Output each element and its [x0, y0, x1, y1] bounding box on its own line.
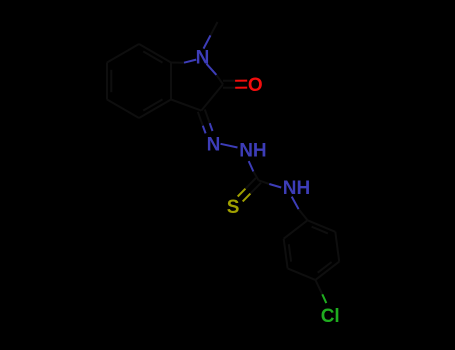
svg-text:O: O — [248, 75, 263, 96]
benzene ring of indoline (C4-C7a) — [107, 44, 171, 118]
double bond C3=N2 (hydrazone) — [198, 109, 213, 133]
svg-text:N: N — [196, 48, 210, 69]
atom label N3 (hydrazide NH) — [239, 141, 266, 162]
chlorophenyl ring C1'-C6' — [284, 220, 340, 280]
double bond C4=S (thiocarbonyl) — [238, 178, 261, 202]
svg-text:N: N — [207, 135, 221, 156]
bond C7a-N1 — [171, 60, 196, 63]
svg-text:NH: NH — [283, 178, 310, 199]
bond N1-CH3 (methyl) — [204, 22, 218, 49]
svg-text:Cl: Cl — [321, 306, 340, 327]
double bond C2=O — [223, 81, 247, 88]
atom label Cl (chlorine) — [321, 306, 340, 327]
bond N2-N3 — [221, 144, 238, 148]
bond N5-C1' — [292, 197, 308, 221]
atom label S (sulfur) — [227, 197, 240, 218]
bond N3-C4 — [249, 161, 259, 180]
svg-text:S: S — [227, 197, 240, 218]
bond C4-N5 — [259, 180, 282, 187]
atom label N2 (hydrazone N) — [207, 135, 221, 156]
atom label O (oxygen) — [248, 75, 263, 96]
svg-text:NH: NH — [239, 141, 266, 162]
bond C3a-C3 — [171, 100, 201, 111]
atom label N5 (anilide NH) — [283, 178, 310, 199]
bond C2-C3 — [201, 84, 223, 110]
atom label N1 (ring nitrogen) — [196, 48, 210, 69]
bond N1-C2 — [207, 64, 224, 85]
bond C4'-Cl — [315, 280, 326, 303]
